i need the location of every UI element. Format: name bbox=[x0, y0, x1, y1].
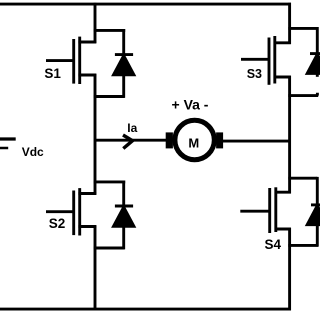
diode D3 anode lead bbox=[316, 73, 319, 77]
svg-text:Vdc: Vdc bbox=[22, 145, 44, 159]
battery Vdc negative plate bbox=[0, 147, 8, 150]
transistor S3 drain connector bbox=[274, 41, 291, 44]
transistor S2 drain connector bbox=[78, 192, 96, 195]
transistor S3 channel bar bbox=[273, 36, 276, 84]
label Vdc (battery value) bbox=[22, 145, 44, 159]
diode D4 cathode lead bbox=[316, 177, 319, 206]
wire S4 diode top branch bbox=[288, 177, 317, 180]
svg-text:S1: S1 bbox=[44, 66, 61, 81]
transistor S4 drain connector bbox=[275, 191, 291, 194]
transistor S3 source connector bbox=[274, 76, 291, 79]
transistor S4 channel bar bbox=[274, 187, 277, 232]
diode D4 cathode bar bbox=[311, 203, 320, 206]
transistor S4 gate bar bbox=[268, 188, 271, 233]
current arrow Ia (arrowhead on motor left lead) bbox=[123, 135, 133, 149]
label S3 bbox=[247, 67, 262, 81]
transistor S3 gate bar bbox=[268, 38, 271, 85]
wire top rail (Vdc+ to S1/S3 drains) bbox=[0, 3, 291, 6]
label S1 bbox=[44, 66, 61, 81]
wire left column bottom segment (S2 source to bottom rail) bbox=[94, 225, 97, 310]
transistor S4 source connector bbox=[275, 228, 291, 231]
diode D1 triangle (anode, pointing up) bbox=[114, 56, 134, 75]
svg-text:+ Va -: + Va - bbox=[172, 96, 209, 112]
wire S1 diode top branch bbox=[94, 29, 126, 32]
node A: left column x=95 top segment (top rail to S1 drain) bbox=[94, 3, 97, 43]
wire S3 diode top branch bbox=[288, 27, 317, 30]
wire motor left lead (node A to motor) bbox=[96, 139, 167, 142]
transistor S2 source connector bbox=[78, 225, 96, 228]
wire S4 diode bottom branch bbox=[288, 244, 318, 247]
transistor S1 gate lead bbox=[46, 59, 74, 62]
motor M1 right brush terminal bbox=[216, 132, 223, 148]
motor M1 left brush terminal bbox=[166, 132, 173, 148]
diode D1 anode lead bbox=[122, 74, 125, 98]
transistor S1 channel bar bbox=[78, 37, 81, 84]
svg-text:S2: S2 bbox=[49, 216, 66, 231]
wire S3 diode bottom branch bbox=[288, 93, 318, 96]
diode D3 cathode bar bbox=[310, 52, 320, 55]
transistor S2 channel bar bbox=[78, 188, 81, 235]
transistor S1 drain connector bbox=[78, 41, 96, 44]
transistor S3 gate lead bbox=[241, 58, 269, 61]
svg-text:S3: S3 bbox=[247, 67, 262, 81]
diode D3 triangle (anode, pointing up) bbox=[307, 54, 320, 73]
diode D4 anode lead bbox=[316, 224, 319, 247]
label S2 bbox=[49, 216, 66, 231]
wire right column bottom segment (S4 source to bottom rail) bbox=[288, 228, 291, 311]
wire S2 diode bottom branch bbox=[94, 247, 125, 250]
label M (motor) bbox=[188, 135, 199, 150]
label S4 bbox=[265, 237, 282, 252]
transistor S1 source connector bbox=[78, 74, 96, 77]
diode D4 triangle (anode, pointing up) bbox=[307, 206, 320, 225]
wire bottom rail (S2/S4 sources to Vdc-) bbox=[0, 308, 291, 311]
transistor S2 gate bar bbox=[72, 191, 75, 236]
svg-text:Ia: Ia bbox=[127, 121, 137, 135]
label + Va - (armature voltage polarity) bbox=[172, 96, 209, 112]
svg-text:M: M bbox=[188, 135, 199, 150]
label Ia (armature current) bbox=[127, 121, 137, 135]
wire S1 diode bottom branch bbox=[94, 95, 125, 98]
wire S2 diode top branch bbox=[94, 180, 126, 183]
diode D2 cathode bar bbox=[115, 205, 133, 208]
motor M1 circle bbox=[175, 120, 214, 159]
svg-text:S4: S4 bbox=[265, 237, 282, 252]
diode D1 cathode bar bbox=[115, 53, 133, 56]
wire motor right lead (motor to node B) bbox=[223, 140, 291, 143]
transistor S4 gate lead bbox=[240, 210, 269, 213]
wire right column mid segment (S3 source to S4 drain through motor node) bbox=[288, 76, 291, 194]
battery Vdc positive plate bbox=[0, 137, 16, 140]
diode D2 anode lead bbox=[122, 226, 125, 250]
diode D2 cathode lead bbox=[122, 181, 125, 208]
node B: right column x=289 top segment (top rail to S3 drain) bbox=[288, 3, 291, 44]
transistor S1 gate bar bbox=[72, 39, 75, 84]
diode D1 cathode lead bbox=[122, 29, 125, 56]
diode D3 cathode lead bbox=[316, 27, 319, 55]
diode D2 triangle (anode, pointing up) bbox=[114, 207, 134, 226]
transistor S2 gate lead bbox=[46, 210, 74, 213]
wire left column mid segment (S1 source to S2 drain through motor node) bbox=[94, 74, 97, 195]
